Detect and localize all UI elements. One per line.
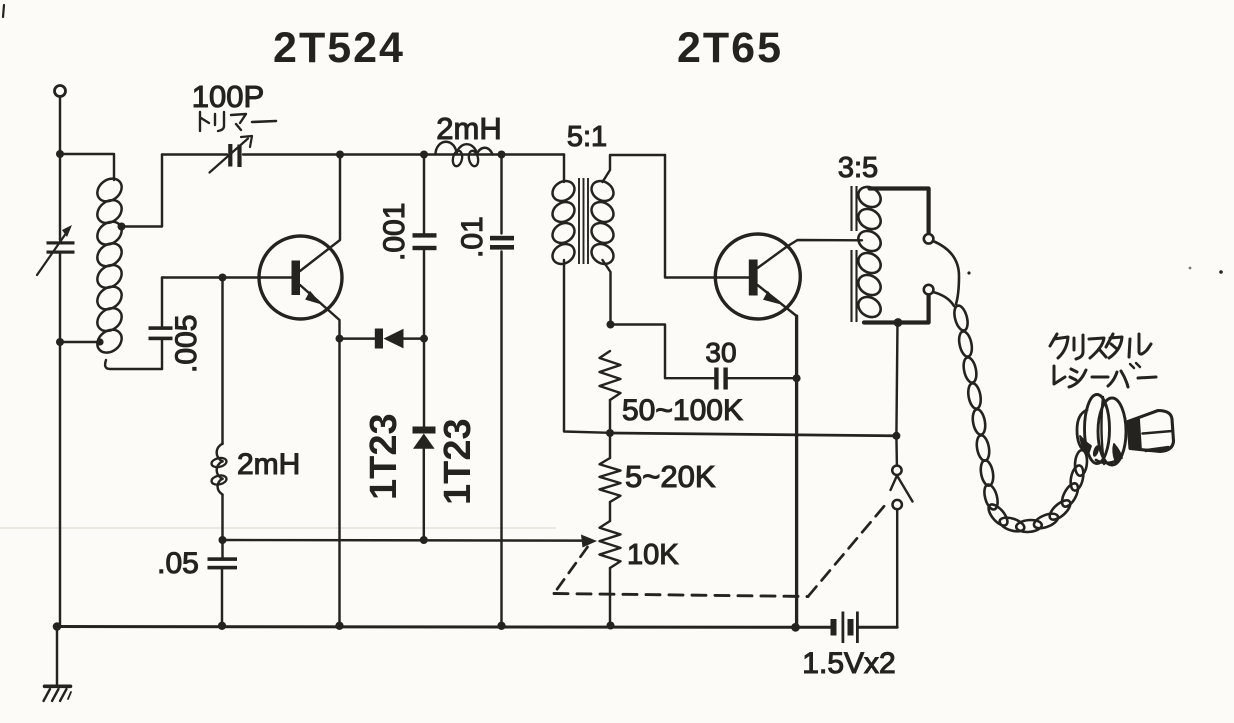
wire pot arrow line (223, 539, 586, 542)
node antenna/coil junction (56, 150, 64, 158)
T1 primary top lead (563, 155, 565, 183)
wire T2 junction down (896, 323, 897, 436)
wire ground stub (56, 627, 58, 687)
choke 2mH vertical loops (217, 444, 223, 462)
capacitor .01 plates (490, 236, 514, 241)
crystal receiver plug (1128, 411, 1174, 452)
wire feedback right (728, 377, 797, 379)
variable capacitor plates (47, 241, 75, 244)
svg-text:10K: 10K (627, 539, 679, 571)
node switch top junction (892, 432, 900, 440)
wire .001 bottom (423, 251, 425, 339)
Q2 emitter wire (758, 285, 797, 316)
T1 core (578, 178, 580, 264)
Q2 emitter arrow (763, 290, 781, 304)
svg-text:.001: .001 (378, 203, 411, 261)
antenna terminal (55, 86, 66, 97)
node 10K rail junction (607, 622, 615, 630)
svg-text:50~100K: 50~100K (622, 394, 743, 427)
T2 winding (855, 183, 885, 211)
earphone terminal lower (924, 285, 934, 295)
battery cell2 short plate (848, 619, 854, 636)
node emitter/diode junction (336, 335, 344, 343)
wire D2 down (423, 449, 425, 540)
gang dashed diagonal at pot (557, 547, 588, 590)
wire coil tap to trimmer bus (122, 155, 163, 227)
scan crease line (0, 527, 556, 529)
svg-text:5:1: 5:1 (567, 121, 607, 153)
wire D1 to .001 line (404, 337, 425, 339)
node T1 secondary bottom junction (607, 321, 615, 329)
diode D1 cathode bar (375, 329, 383, 349)
crystal receiver earpiece body (1077, 410, 1087, 452)
T1 secondary bottom lead (603, 260, 611, 325)
svg-text:5~20K: 5~20K (625, 459, 716, 494)
svg-text:.05: .05 (157, 547, 199, 580)
wire junction to switch (895, 436, 898, 466)
node feedback/emitter junction (793, 374, 801, 382)
svg-text:2T524: 2T524 (273, 24, 405, 72)
svg-text:1T23: 1T23 (437, 418, 479, 505)
transistor Q1 2T524 body (259, 236, 342, 319)
svg-text:1.5Vx2: 1.5Vx2 (802, 647, 895, 680)
wire R1-R2 link (609, 433, 611, 458)
wire R1 junction to switch node (610, 433, 896, 436)
capacitor .005 plates (149, 326, 173, 330)
wire bus right of trimmer (243, 153, 564, 155)
ground symbol (45, 684, 71, 688)
node coil tap (118, 223, 126, 231)
label crystal katakana ku-ri-su-ta-ru (1050, 334, 1057, 346)
battery cell1 short plate (831, 619, 837, 636)
wire 10K to rail (609, 568, 611, 627)
pot arrow head (581, 535, 597, 548)
diode D2 triangle (413, 434, 435, 449)
transistor Q2 2T65 body (715, 234, 800, 319)
T2 top lead (870, 189, 929, 234)
wire .05 to rail (221, 570, 223, 627)
wire bus left segment (162, 153, 227, 155)
node rail left end (53, 622, 62, 631)
node rail Q1-emitter junction (335, 622, 343, 630)
wire base branch down (221, 278, 223, 445)
label receiver katakana re-shi-ba (1054, 366, 1065, 384)
label trimmer katakana to-ri-ma- (199, 112, 201, 131)
T1 primary bottom lead (564, 260, 610, 433)
twisted earphone cord (933, 241, 959, 304)
capacitor .001 plates (413, 233, 437, 237)
svg-text:2T65: 2T65 (677, 24, 783, 72)
Q1 base wire (162, 276, 292, 278)
switch S1 bottom contact (893, 500, 902, 509)
svg-text:100P: 100P (192, 79, 264, 114)
node collector bus junction (336, 151, 344, 159)
T2 bottom lead (864, 295, 929, 323)
svg-text:.01: .01 (456, 216, 489, 258)
node rail .05 junction (218, 622, 226, 630)
T2 core lower (850, 250, 852, 322)
svg-text:.005: .005 (170, 315, 203, 373)
wire secondary to Q2 base (665, 155, 749, 278)
wire switch to rail (896, 510, 898, 628)
battery cell2 long plate (856, 612, 859, 644)
node base/2mH junction (219, 274, 227, 282)
gang dashed horizontal (554, 594, 808, 597)
wire .01 bottom to rail (500, 252, 502, 627)
node .01 bus junction (498, 151, 506, 159)
T1 secondary top lead (603, 155, 666, 182)
Q1 collector wire (300, 155, 340, 272)
potentiometer 10K (600, 521, 621, 568)
svg-text:1T23: 1T23 (363, 413, 405, 500)
node D2/arrow-line junction (420, 536, 428, 544)
battery cell1 long plate (842, 612, 845, 644)
variable capacitor arrow (37, 229, 69, 275)
node rail .01 junction (497, 622, 505, 630)
paper speck (967, 271, 970, 274)
corner mark (3, 5, 4, 17)
Q1 base bar (292, 261, 301, 296)
node .001 bus junction (420, 151, 428, 159)
capacitor .05 plates (208, 557, 238, 561)
bottom rail right of battery (859, 626, 897, 629)
coil L1 bottom lead (105, 360, 162, 369)
Q1 emitter wire (300, 285, 340, 627)
capacitor 30 plates (714, 368, 718, 390)
svg-text:30: 30 (705, 337, 736, 368)
Q2 collector wire (758, 240, 863, 268)
gang dashed diagonal to switch (808, 501, 889, 597)
Q1 emitter arrow (305, 290, 324, 304)
earphone terminal upper (924, 234, 934, 244)
T1 primary winding (549, 177, 578, 205)
bottom rail left (57, 625, 831, 629)
wire choke to .05 (221, 495, 223, 558)
wire .01 top (500, 155, 502, 234)
trimmer capacitor plates (228, 144, 232, 167)
wire feedback left (611, 325, 714, 379)
resistor 50-100K (600, 351, 621, 400)
T1 secondary winding (588, 177, 617, 205)
resistor 5-20K (600, 458, 621, 502)
switch S1 top contact (892, 466, 901, 475)
wire variable cap down (59, 254, 61, 627)
switch S1 lever (891, 476, 913, 502)
wire base corner down to .005 (161, 278, 163, 327)
wire R1 bottom (609, 400, 611, 433)
node coil lower tap junction (56, 338, 64, 346)
node T2 bottom junction (894, 318, 903, 327)
wire .005 bottom (161, 341, 163, 370)
wire D1 junction down (423, 339, 425, 427)
diode D2 cathode bar (413, 427, 436, 434)
svg-text:3:5: 3:5 (838, 152, 878, 184)
wire junction to coil lower tap (60, 341, 100, 343)
Q2 base bar (749, 260, 758, 296)
T2 core upper (850, 186, 852, 231)
node R1 bottom junction (606, 429, 614, 437)
choke 2mH horizontal (435, 142, 456, 155)
wire junction to coil top (60, 154, 114, 180)
svg-text:2mH: 2mH (237, 448, 300, 481)
wire emitter to D1 (340, 337, 376, 339)
trimmer arrow (210, 139, 249, 173)
wire antenna down to variable cap (59, 97, 61, 241)
node rail Q2-emitter junction (791, 623, 800, 632)
node 10K-arrow branch (219, 536, 227, 544)
antenna coil L1 (93, 174, 126, 206)
diode D1 triangle (384, 329, 404, 349)
wire .001 top (423, 155, 425, 234)
node D1/.001 junction (420, 335, 428, 343)
